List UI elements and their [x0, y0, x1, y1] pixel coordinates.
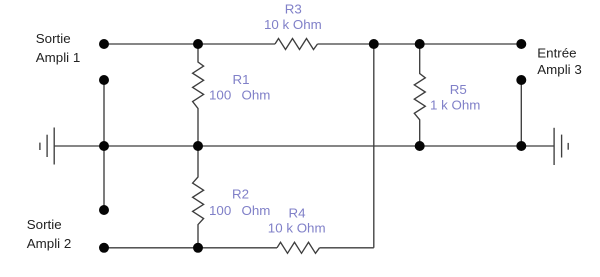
node: junction of Entrée return wire with ground bus [516, 141, 526, 151]
node: Entrée Ampli 3 input terminal on top bus [516, 39, 526, 49]
node: Sortie Ampli 2 return terminal [99, 205, 109, 215]
resistor R1 (100 Ohm, vertical between top bus and ground bus) [193, 44, 204, 146]
node: junction of R2 with bottom bus [193, 243, 203, 253]
node: Entrée Ampli 3 return terminal [516, 75, 526, 85]
svg-text:Sortie: Sortie [27, 217, 62, 232]
svg-text:R1: R1 [233, 72, 250, 87]
svg-text:10 k Ohm: 10 k Ohm [264, 17, 322, 32]
svg-text:Ampli 3: Ampli 3 [537, 62, 581, 77]
svg-text:R2: R2 [232, 186, 249, 201]
svg-text:Ohm: Ohm [242, 203, 271, 218]
node: junction of riser with top bus [369, 39, 379, 49]
svg-text:100: 100 [209, 87, 231, 102]
svg-text:Ohm: Ohm [242, 87, 271, 102]
wire: Sortie Ampli 1 lower terminal down to Sortie Ampli 2 upper terminal [103, 80, 105, 210]
svg-text:Ampli 2: Ampli 2 [27, 236, 71, 251]
svg-text:100: 100 [209, 203, 231, 218]
ground: right ground symbol [553, 128, 555, 165]
wire: Entrée Ampli 3 lower terminal down to ground bus [520, 80, 522, 146]
node: Sortie Ampli 2 output terminal on bottom bus [99, 243, 109, 253]
wire: top bus, left segment (Sortie Ampli 1 to R3) [104, 43, 275, 45]
wire: ground bus (middle horizontal rail) [54, 145, 554, 147]
svg-text:R3: R3 [285, 2, 302, 17]
resistor R2 (100 Ohm, vertical between ground bus and bottom bus) [193, 146, 204, 248]
resistor R4 (10 k Ohm, horizontal zigzag on bottom bus) [277, 242, 320, 253]
svg-text:Sortie: Sortie [36, 31, 71, 46]
svg-text:1 k Ohm: 1 k Ohm [430, 98, 480, 113]
node: Sortie Ampli 1 output terminal on top bus [99, 39, 109, 49]
svg-text:10 k Ohm: 10 k Ohm [268, 221, 326, 236]
resistor R5 (1 k Ohm, vertical between top bus and ground bus) [414, 44, 425, 146]
node: junction of return wire with ground bus [99, 141, 109, 151]
ground: left ground symbol [53, 128, 55, 165]
node: junction of R5 with top bus [415, 39, 425, 49]
wire: bottom bus, right segment (R4 to riser corner) [320, 247, 374, 249]
svg-text:Ampli 1: Ampli 1 [36, 50, 80, 65]
svg-text:R5: R5 [450, 82, 467, 97]
wire: bottom bus, left segment (Sortie Ampli 2 to R4) [104, 247, 277, 249]
node: Sortie Ampli 1 return terminal [99, 75, 109, 85]
svg-text:R4: R4 [289, 206, 307, 221]
resistor R3 (10 k Ohm, horizontal zigzag on top bus) [275, 39, 318, 50]
node: junction of R5 with ground bus [415, 141, 425, 151]
wire: vertical riser joining bottom bus to top bus [373, 44, 375, 248]
node: junction of R1/R2 with ground bus [193, 141, 203, 151]
wire: top bus, right segment (R3 to Entrée Ampli 3) [318, 43, 522, 45]
svg-text:Entrée: Entrée [537, 45, 576, 60]
node: junction of R1 with top bus [193, 39, 203, 49]
